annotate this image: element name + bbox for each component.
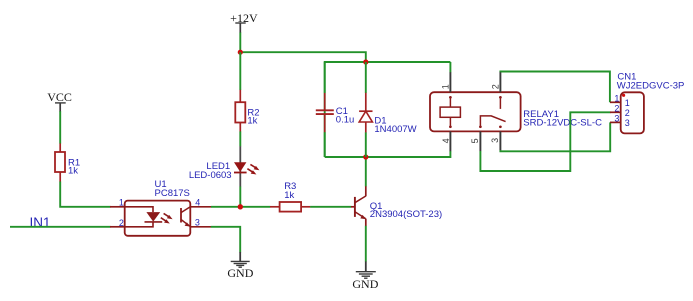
wire pin1 elbow <box>449 62 451 72</box>
relay switch <box>499 96 502 99</box>
svg-text:3: 3 <box>195 218 200 228</box>
svg-text:1: 1 <box>614 94 619 104</box>
U1 internal LED <box>125 207 153 212</box>
wire R1 to U1 pin1 <box>60 182 110 207</box>
ground GND (U1) <box>227 252 253 280</box>
svg-text:2: 2 <box>625 108 630 118</box>
svg-text:WJ2EDGVC-3P: WJ2EDGVC-3P <box>617 81 685 92</box>
node junction LED/R3 <box>238 204 243 209</box>
CN1 pin 3 <box>610 121 621 123</box>
svg-text:1k: 1k <box>284 190 294 201</box>
relay body <box>430 92 521 131</box>
wire VCC to R1 <box>59 111 61 143</box>
node junction at +12V/R2 <box>238 50 243 55</box>
CN1 pin 2 <box>610 111 621 113</box>
svg-text:SRD-12VDC-SL-C: SRD-12VDC-SL-C <box>523 117 602 128</box>
svg-text:1N4007W: 1N4007W <box>374 124 416 135</box>
svg-text:PC817S: PC817S <box>155 188 190 199</box>
CN1 body <box>621 92 644 133</box>
svg-text:2: 2 <box>491 84 501 89</box>
wire C1 top/bottom <box>324 62 326 93</box>
relay pin 2 <box>499 72 501 93</box>
svg-text:3: 3 <box>614 114 619 124</box>
wire IN1 to U1 pin2 <box>10 226 111 228</box>
wire +12V down <box>239 33 241 53</box>
CN1 pin 1 <box>610 101 621 103</box>
wire top rail C1/D1/relay <box>325 62 451 157</box>
svg-text:LED-0603: LED-0603 <box>189 170 232 181</box>
svg-text:IN1: IN1 <box>30 215 51 230</box>
diode D1 1N4007W <box>359 93 417 135</box>
CN1 pin1 marker <box>622 94 625 97</box>
resistor R2 <box>235 90 259 132</box>
wire U1 pin3 to GND <box>211 227 240 253</box>
relay pin 5 <box>479 131 481 151</box>
wire relay pin2 to CN1 pin1 <box>500 72 610 103</box>
relay RELAY1 SRD-12VDC-SL-C <box>430 62 602 151</box>
wire +12V to R2 <box>239 52 241 90</box>
power flag +12V <box>230 11 258 33</box>
relay coil <box>449 96 452 99</box>
op-amp U1 PC817S optocoupler <box>110 179 211 236</box>
LED LED1 LED-0603 <box>189 146 260 187</box>
wire relay pin5 to CN1 pin2 <box>480 112 610 171</box>
resistor R1 <box>55 143 80 181</box>
wire D1 column <box>365 62 367 93</box>
pin 3 <box>190 226 211 228</box>
relay pin 4 <box>449 131 451 151</box>
svg-text:3: 3 <box>625 118 630 128</box>
power flag VCC <box>47 90 72 112</box>
wire R2 to LED1 <box>239 131 241 146</box>
svg-text:2: 2 <box>119 218 124 228</box>
wire +12V rail right <box>240 52 365 62</box>
svg-text:4: 4 <box>195 198 200 208</box>
wire Q1 emitter to GND <box>365 226 367 262</box>
relay pin 3 <box>499 131 501 150</box>
node junction top of D1 <box>363 59 368 64</box>
wire R3 to Q1 base <box>310 206 351 208</box>
svg-text:2N3904(SOT-23): 2N3904(SOT-23) <box>370 209 442 220</box>
relay pin 1 <box>449 72 451 92</box>
pin 2 <box>110 226 125 228</box>
svg-text:1: 1 <box>441 84 451 89</box>
svg-text:GND: GND <box>352 277 378 291</box>
U1 light arrows <box>164 213 170 217</box>
U1 body <box>125 201 191 236</box>
U1 phototransistor <box>180 208 182 223</box>
pin 4 <box>190 206 211 208</box>
node junction bottom of D1 <box>363 154 368 159</box>
svg-text:1k: 1k <box>247 116 257 127</box>
svg-text:3: 3 <box>490 138 500 143</box>
connector CN1 WJ2EDGVC-3P <box>610 71 684 133</box>
wire LED1 to junction <box>239 187 241 207</box>
wire U1 pin4 to junction to R3 <box>211 206 270 208</box>
svg-text:1: 1 <box>625 98 630 108</box>
svg-text:2: 2 <box>614 104 619 114</box>
wire Q1 collector up <box>365 157 367 186</box>
svg-text:1k: 1k <box>68 166 78 177</box>
wire relay pin3 to CN1 pin3 <box>500 122 610 151</box>
svg-text:1: 1 <box>119 198 124 208</box>
capacitor C1 0.1u <box>316 93 355 133</box>
svg-text:0.1u: 0.1u <box>336 115 355 126</box>
wire bottom rail to relay pin4 <box>325 151 451 157</box>
svg-text:VCC: VCC <box>47 90 72 104</box>
ground GND (Q1) <box>352 262 378 292</box>
svg-text:4: 4 <box>441 138 451 143</box>
transistor Q1 2N3904 <box>351 186 442 226</box>
pin 1 <box>110 206 125 208</box>
resistor R3 <box>270 181 310 211</box>
svg-text:GND: GND <box>227 266 253 280</box>
svg-text:5: 5 <box>470 138 480 143</box>
